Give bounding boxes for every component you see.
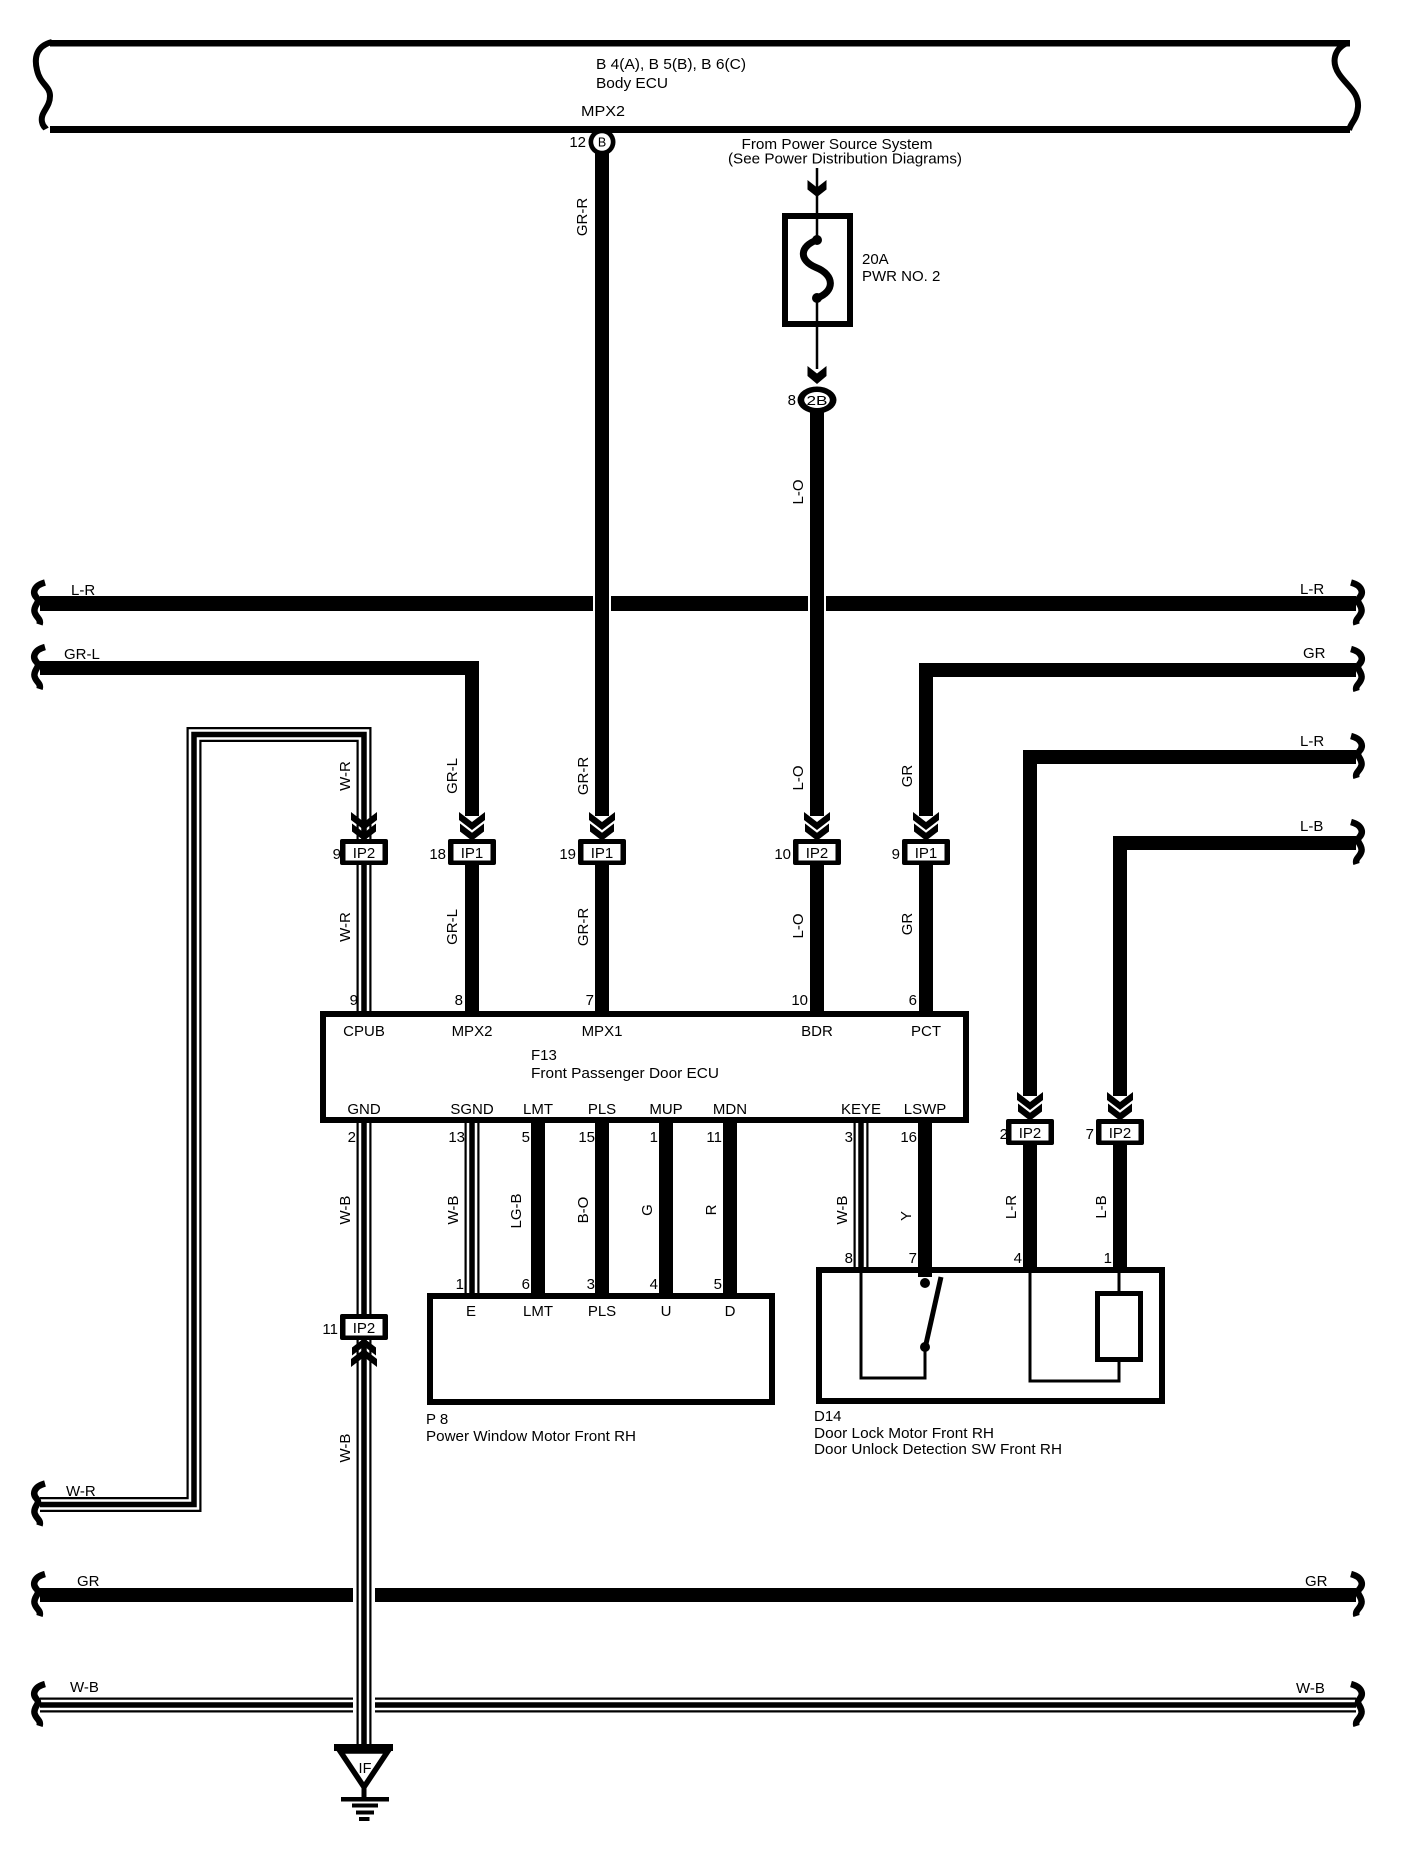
arrow down into fuse [808,180,827,197]
svg-text:E: E [466,1303,476,1320]
wire W-B shielded from F13 KEYE pin 3 to D14 pin 8 [855,1121,868,1269]
arrow into IP2 pin 7 [1107,1092,1133,1121]
continuation squiggle W-R bottom left [34,1484,45,1526]
svg-text:MPX2: MPX2 [452,1023,493,1040]
continuation squiggle L-R left [34,583,45,625]
svg-text:3: 3 [845,1129,853,1146]
svg-text:8: 8 [845,1250,853,1267]
svg-text:2: 2 [348,1129,356,1146]
svg-text:Y: Y [898,1211,915,1221]
svg-text:Door Unlock Detection SW Front: Door Unlock Detection SW Front RH [814,1441,1062,1458]
svg-text:10: 10 [774,846,791,863]
wire L-R from bus to IP2 [1023,750,1037,1096]
wire B-O from F13 PLS pin 15 to P8 PLS pin 3 [595,1121,609,1295]
svg-text:W-B: W-B [445,1196,462,1225]
svg-text:R: R [703,1204,720,1215]
svg-text:PLS: PLS [588,1101,616,1118]
svg-text:9: 9 [333,846,341,863]
svg-text:L-R: L-R [1300,733,1324,750]
wire L-B from IP2 to D14 pin 1 [1113,1145,1127,1269]
arrow down into connector 2B [808,366,827,384]
wire W-B shielded from F13 SGND pin 13 to P8 E pin 1 [466,1121,479,1295]
wire L-B from bus to IP2 [1113,836,1127,1096]
svg-text:7: 7 [586,992,594,1009]
svg-text:2: 2 [1000,1126,1008,1143]
bus wire L-R (second right) [1023,750,1356,764]
arrow into IP2 pin 2 [1017,1092,1043,1121]
arrow up into IP2 pin 11 [351,1338,377,1367]
arrow into IP2 pin 9 [351,812,377,841]
svg-text:11: 11 [706,1129,722,1146]
svg-text:GND: GND [347,1101,381,1118]
svg-text:LG-B: LG-B [508,1193,525,1228]
wire thin feed into fuse [816,168,819,216]
wire L-O from fuse connector 2B to IP2 [810,412,824,816]
wire GR from IP1 to F13 PCT pin 6 [919,865,933,1013]
svg-text:F13: F13 [531,1047,557,1064]
D14: Door Lock Motor / Door Unlock Detection SW box [819,1270,1162,1401]
svg-text:IP1: IP1 [461,845,484,862]
bus wire GR-L (left) [40,661,479,675]
ECU F13: Front Passenger Door ECU box [323,1014,966,1120]
bus wire GR (bottom) [40,1588,1356,1602]
svg-text:B 4(A), B 5(B), B 6(C): B 4(A), B 5(B), B 6(C) [596,56,746,73]
svg-text:20A: 20A [862,251,889,268]
wire L-O from IP2 to F13 BDR pin 10 [810,865,824,1013]
svg-text:GR-L: GR-L [64,646,100,663]
svg-text:2B: 2B [807,393,828,408]
svg-text:IP2: IP2 [353,1320,376,1337]
wire GR-L from IP1 to F13 MPX2 pin 8 [465,865,479,1013]
motor P8: Power Window Motor Front RH box [430,1296,772,1402]
svg-text:GR: GR [899,765,916,788]
svg-text:GR-L: GR-L [444,758,461,794]
svg-text:8: 8 [788,392,796,409]
svg-text:SGND: SGND [450,1101,494,1118]
continuation squiggle L-R second [1351,736,1362,778]
svg-text:5: 5 [714,1276,722,1293]
wire GR-L from bus to IP1 [465,661,479,816]
svg-text:W-B: W-B [337,1196,354,1225]
svg-text:W-B: W-B [1296,1680,1325,1697]
svg-text:IP1: IP1 [591,845,614,862]
wire W-B ground wire from F13 GND pin 2 through IP2 to ground IF [358,1121,371,1745]
svg-text:1: 1 [1104,1250,1112,1267]
wire G from F13 MUP pin 1 to P8 U pin 4 [659,1121,673,1295]
wire R from F13 MDN pin 11 to P8 D pin 5 [723,1121,737,1295]
D14 door lock motor [1030,1271,1141,1381]
continuation squiggle GR right upper [1351,649,1362,691]
connector B circle at Body ECU pin 12 [569,129,615,156]
svg-text:IP2: IP2 [806,845,829,862]
continuation squiggle GR bottom right [1351,1574,1362,1616]
svg-text:GR: GR [1305,1573,1328,1590]
svg-text:1: 1 [650,1129,658,1146]
svg-text:GR-L: GR-L [444,909,461,945]
svg-text:CPUB: CPUB [343,1023,385,1040]
svg-text:12: 12 [569,134,586,151]
wire LG-B from F13 LMT pin 5 to P8 LMT pin 6 [531,1121,545,1295]
crossover gaps on buses [593,594,611,613]
svg-text:L-O: L-O [790,765,807,790]
svg-text:GR-R: GR-R [575,757,592,795]
connector IP2 pin 10 [774,839,841,865]
connector IP2 pin 7 [1086,1119,1144,1145]
svg-text:B-O: B-O [575,1197,592,1224]
svg-text:Power Window Motor Front RH: Power Window Motor Front RH [426,1428,636,1445]
connector IP1 pin 9 PCT [892,839,950,865]
svg-text:18: 18 [429,846,446,863]
wire W-R loop from F13 CPUB pin 9 via IP2 to bottom-left continuation [40,728,370,1511]
ground IF [334,1744,393,1821]
svg-text:4: 4 [1014,1250,1022,1267]
svg-text:IP2: IP2 [1019,1125,1042,1142]
arrow into IP1 pin 18 [459,812,485,841]
svg-text:Body ECU: Body ECU [596,75,668,92]
svg-text:GR-R: GR-R [575,908,592,946]
svg-text:W-R: W-R [337,761,354,791]
svg-text:D14: D14 [814,1408,842,1425]
svg-text:KEYE: KEYE [841,1101,881,1118]
svg-text:IP1: IP1 [915,845,938,862]
svg-text:13: 13 [448,1129,465,1146]
connector IP2 pin 2 [1000,1119,1054,1145]
svg-text:7: 7 [1086,1126,1094,1143]
svg-text:L-O: L-O [790,913,807,938]
svg-text:6: 6 [522,1276,530,1293]
svg-text:L-B: L-B [1300,818,1323,835]
svg-text:10: 10 [791,992,808,1009]
svg-text:PCT: PCT [911,1023,941,1040]
connector 2B oval, pin 8 [788,387,837,414]
svg-text:6: 6 [909,992,917,1009]
wire GR-R from IP1 to F13 MPX1 pin 7 [595,865,609,1013]
continuation squiggle GR-L left [34,647,45,689]
svg-text:Front Passenger Door ECU: Front Passenger Door ECU [531,1065,719,1082]
svg-text:PWR NO. 2: PWR NO. 2 [862,268,940,285]
svg-text:D: D [725,1303,736,1320]
svg-text:9: 9 [892,846,900,863]
svg-text:11: 11 [322,1321,338,1338]
svg-text:9: 9 [350,992,358,1009]
svg-text:IP2: IP2 [353,845,376,862]
svg-text:15: 15 [578,1129,595,1146]
svg-text:IP2: IP2 [1109,1125,1132,1142]
svg-text:19: 19 [559,846,576,863]
svg-text:MPX2: MPX2 [581,103,625,120]
svg-text:P 8: P 8 [426,1411,448,1428]
arrow into IP1 pin 19 [589,812,615,841]
svg-text:G: G [639,1204,656,1216]
D14 door unlock detection switch [861,1271,941,1378]
svg-text:W-B: W-B [834,1196,851,1225]
svg-text:5: 5 [522,1129,530,1146]
svg-text:L-B: L-B [1093,1195,1110,1218]
svg-text:16: 16 [900,1129,917,1146]
svg-text:LMT: LMT [523,1101,553,1118]
svg-text:4: 4 [650,1276,658,1293]
svg-text:L-R: L-R [1003,1195,1020,1219]
svg-text:(See Power Distribution Diagra: (See Power Distribution Diagrams) [728,151,962,168]
svg-text:L-R: L-R [71,582,95,599]
svg-text:L-O: L-O [790,479,807,504]
svg-text:Door Lock Motor Front RH: Door Lock Motor Front RH [814,1425,994,1442]
bus wire GR (right upper) [919,663,1356,677]
svg-text:U: U [661,1303,672,1320]
svg-text:LSWP: LSWP [904,1101,947,1118]
continuation squiggle W-B left [34,1684,45,1726]
svg-text:7: 7 [909,1250,917,1267]
svg-text:GR-R: GR-R [574,198,591,236]
ECU B: Body ECU box [36,40,1358,133]
svg-text:W-R: W-R [66,1483,96,1500]
bus wire L-B (right) [1113,836,1356,850]
svg-text:MPX1: MPX1 [582,1023,623,1040]
connector IP2 pin 9 [333,839,388,865]
svg-text:GR: GR [1303,645,1326,662]
wire L-R from IP2 to D14 pin 4 [1023,1145,1037,1269]
continuation squiggle L-R right [1351,583,1362,625]
svg-text:GR: GR [899,913,916,936]
continuation squiggle GR bottom left [34,1574,45,1616]
svg-text:W-R: W-R [337,912,354,942]
svg-text:GR: GR [77,1573,100,1590]
svg-text:PLS: PLS [588,1303,616,1320]
svg-text:L-R: L-R [1300,581,1324,598]
svg-text:BDR: BDR [801,1023,833,1040]
svg-text:B: B [598,136,606,150]
connector IP1 pin 19 [559,839,626,865]
bus wire L-R (top) [40,596,1356,611]
wire GR from bus to IP1 [919,663,933,816]
wire GR-R from Body ECU MPX2 pin 12 down to IP1 [595,142,609,816]
svg-text:IF: IF [359,1761,372,1777]
connector IP2 pin 11 [322,1314,388,1340]
svg-text:W-B: W-B [70,1679,99,1696]
wire Y from F13 LSWP pin 16 to D14 switch pin 7 [918,1121,932,1277]
svg-text:3: 3 [587,1276,595,1293]
continuation squiggle L-B [1351,822,1362,864]
bus wire W-B (bottom) [40,1699,1356,1712]
connector IP1 pin 18 [429,839,496,865]
arrow into IP1 pin 9 [913,812,939,841]
svg-text:MDN: MDN [713,1101,747,1118]
svg-text:MUP: MUP [649,1101,682,1118]
continuation squiggle W-B right [1351,1684,1362,1726]
svg-text:1: 1 [456,1276,464,1293]
fuse 20A PWR NO. 2 [785,216,850,369]
arrow into IP2 pin 10 [804,812,830,841]
svg-text:8: 8 [455,992,463,1009]
svg-text:W-B: W-B [337,1434,354,1463]
svg-text:LMT: LMT [523,1303,553,1320]
